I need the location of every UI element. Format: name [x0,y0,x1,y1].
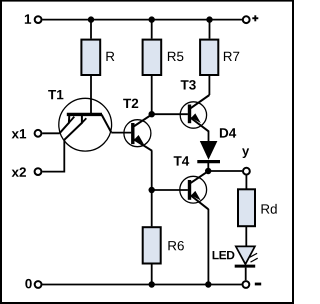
label LED [213,251,235,259]
node dot top rail at R7 [206,16,212,22]
resistor R5 [143,40,162,75]
transistor T1 [59,98,112,151]
wire bottom rail [42,284,242,286]
value label R5 [168,52,183,61]
terminal x1 [35,130,42,137]
value label R [106,52,114,61]
wire R7 to T3 collector [208,76,210,95]
label T4 [174,156,190,165]
resistor R [81,40,100,75]
wire node to T4 base [152,189,188,191]
label T2 [123,99,138,108]
wire terminal y to Rd [245,175,247,188]
label x1 (input) [12,129,27,138]
resistor R6 [143,227,161,263]
value label Rd [262,204,277,214]
wire R5 to node [151,76,153,114]
label 1 (terminal) [25,14,31,23]
value label R7 [224,52,239,61]
label T3 [181,80,196,90]
wire node to T3 base [152,113,188,115]
diode D4 [197,141,220,171]
node dot D4 / T4 collector / y [205,168,211,174]
node dot bottom rail at T4 [205,281,211,287]
wire x2 to T1 emitter2 [42,140,64,172]
terminal x2 [35,168,42,175]
wire T1 collector to T2 base [111,132,131,134]
terminal - (minus) [243,281,250,288]
node dot bottom rail at R6 [149,281,155,287]
wire top rail [42,19,242,21]
node dot top rail at R5 [149,16,155,22]
wire rail to R5 [151,20,153,39]
LED [235,246,258,280]
wire node to terminal y [208,170,242,172]
value label R6 [168,241,183,250]
label D4 [220,128,236,137]
terminal y [243,168,250,175]
terminal 1 [35,16,42,23]
transistor T3 [180,95,209,131]
terminal + [243,16,250,23]
transistor T4 [180,171,209,209]
label T1 [48,90,63,99]
wire R to T1 base [90,76,92,114]
wire R6 to bottom rail [151,264,153,284]
node dot T4 base branch [149,187,155,193]
resistor R7 [200,40,218,75]
label x2 (input) [12,167,26,176]
wire Rd to LED [245,227,247,247]
wire x1 to T1 emitter1 [42,132,60,134]
wire T4 emitter to bottom rail [207,209,209,285]
resistor Rd [238,189,255,226]
node dot top rail at R [88,16,94,22]
label 0 (terminal) [25,279,31,289]
label y (output) [242,148,249,158]
node dot T2 collector / R5 / T3 base [149,111,155,117]
wire T2 emitter to R6 [151,150,153,226]
transistor T2 [124,114,152,150]
wire rail to R [90,20,92,39]
wire rail to R7 [209,20,211,39]
terminal 0 [35,281,42,288]
wire T3 emitter to D4 [208,131,210,142]
